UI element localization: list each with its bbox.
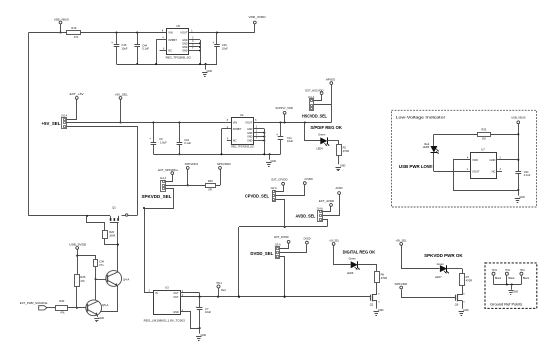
svg-text:+: +: [195, 305, 197, 309]
svg-text:0.1uF: 0.1uF: [524, 173, 531, 177]
svg-text:DIGITAL REG OK: DIGITAL REG OK: [343, 249, 376, 254]
svg-text:GND: GND: [340, 165, 346, 168]
svg-text:R30: R30: [59, 299, 64, 303]
svg-text:Ground Ref Points: Ground Ref Points: [490, 303, 523, 307]
svg-text:470R: 470R: [381, 276, 387, 280]
svg-text:REG_LM1086IS_1.8V_TO263: REG_LM1086IS_1.8V_TO263: [144, 319, 185, 323]
svg-text:GND: GND: [182, 50, 188, 53]
svg-text:+5V_SEL: +5V_SEL: [115, 92, 128, 96]
svg-text:VOUT: VOUT: [245, 121, 253, 125]
svg-text:REG_TPS76933_SO: REG_TPS76933_SO: [231, 144, 254, 148]
svg-text:+5V_SEL: +5V_SEL: [42, 121, 61, 126]
svg-text:USB_VBUS: USB_VBUS: [54, 18, 69, 22]
svg-text:USB PWR LOW!: USB PWR LOW!: [399, 164, 433, 169]
svg-text:C44: C44: [142, 43, 147, 47]
svg-text:GND: GND: [513, 290, 519, 293]
svg-text:J12 A: J12 A: [270, 187, 277, 190]
svg-text:+5V_SEL: +5V_SEL: [329, 239, 339, 243]
svg-text:Red: Red: [221, 289, 226, 292]
svg-text:47k: 47k: [60, 311, 65, 315]
svg-text:EXT_HSCVDD: EXT_HSCVDD: [306, 89, 325, 93]
svg-text:VIN: VIN: [233, 121, 237, 125]
svg-text:LED4: LED4: [316, 146, 323, 150]
svg-text:SUPPLY_VDD: SUPPLY_VDD: [275, 106, 293, 110]
svg-text:Black: Black: [495, 277, 502, 280]
svg-text:HSCVDD_SEL: HSCVDD_SEL: [302, 113, 327, 118]
svg-text:SPKVDD PWR OK: SPKVDD PWR OK: [424, 253, 463, 258]
svg-text:100K: 100K: [109, 234, 115, 238]
svg-text:VDD: VDD: [472, 158, 478, 162]
svg-text:GND: GND: [247, 132, 253, 135]
svg-text:EXT_AVDD: EXT_AVDD: [319, 199, 335, 203]
svg-text:10uF: 10uF: [222, 46, 228, 50]
svg-text:10uF: 10uF: [205, 310, 211, 314]
svg-text:EXT_DVDD: EXT_DVDD: [274, 235, 289, 239]
svg-text:CPVDD: CPVDD: [305, 177, 314, 181]
svg-text:GND: GND: [271, 160, 277, 163]
svg-text:Green: Green: [318, 133, 326, 137]
svg-text:R33: R33: [481, 128, 486, 132]
svg-text:GND: GND: [247, 128, 253, 131]
svg-text:TP14: TP14: [216, 281, 222, 285]
svg-text:GND: GND: [182, 39, 188, 42]
svg-text:R16: R16: [71, 26, 76, 30]
svg-text:SPKVDD: SPKVDD: [395, 282, 409, 286]
svg-text:+: +: [149, 136, 151, 140]
svg-text:GND: GND: [182, 43, 188, 46]
svg-text:NC: NC: [492, 169, 496, 173]
svg-text:SPKVDD2: SPKVDD2: [217, 162, 231, 166]
svg-text:CPVDD_SEL: CPVDD_SEL: [245, 194, 270, 199]
svg-text:47n: 47n: [99, 263, 104, 267]
svg-text:J14 A: J14 A: [317, 207, 324, 210]
svg-text:470R: 470R: [343, 149, 349, 153]
svg-text:U3: U3: [165, 286, 169, 290]
svg-text:Black: Black: [508, 277, 515, 280]
svg-text:IN: IN: [155, 291, 158, 295]
svg-text:AVDD_SEL: AVDD_SEL: [296, 213, 316, 218]
svg-text:GND: GND: [247, 136, 253, 139]
svg-text:R7: R7: [466, 275, 470, 279]
svg-text:DVDD_SEL: DVDD_SEL: [250, 251, 273, 256]
svg-text:1.5uF: 1.5uF: [160, 140, 167, 144]
svg-text:HPVDD: HPVDD: [326, 78, 336, 82]
svg-text:GND: GND: [519, 196, 525, 199]
svg-text:J13 A: J13 A: [160, 177, 167, 180]
svg-text:470: 470: [74, 35, 79, 39]
svg-text:U7: U7: [481, 148, 485, 152]
svg-text:R2: R2: [343, 146, 347, 150]
svg-text:EXT_PWR_SOURCE: EXT_PWR_SOURCE: [20, 301, 48, 305]
svg-text:+: +: [111, 41, 113, 45]
svg-text:Q4-A: Q4-A: [123, 277, 130, 281]
svg-text:LED5: LED5: [423, 145, 430, 149]
svg-text:DVDD: DVDD: [304, 237, 311, 241]
svg-text:470R: 470R: [466, 278, 472, 282]
svg-text:10uF: 10uF: [121, 46, 127, 50]
svg-text:TP13: TP13: [492, 268, 497, 272]
svg-text:10uF: 10uF: [287, 139, 293, 143]
svg-text:S/PDIF REG OK: S/PDIF REG OK: [310, 125, 342, 130]
svg-text:OUT: OUT: [173, 296, 179, 299]
svg-text:J15 A: J15 A: [274, 243, 281, 246]
svg-text:SPKVDD1: SPKVDD1: [185, 162, 199, 166]
svg-text:+: +: [276, 133, 278, 137]
svg-text:Q1: Q1: [112, 206, 116, 210]
svg-text:GND: GND: [99, 317, 105, 320]
svg-text:INHIBIT: INHIBIT: [168, 39, 177, 42]
svg-text:GND: GND: [173, 311, 179, 314]
svg-text:Q2: Q2: [370, 303, 374, 307]
svg-text:+: +: [212, 41, 214, 45]
svg-text:LED7: LED7: [435, 275, 442, 279]
svg-text:47k: 47k: [80, 279, 85, 283]
svg-text:0R: 0R: [208, 188, 211, 192]
svg-text:VIN: VIN: [168, 31, 172, 35]
svg-text:VOUT: VOUT: [180, 31, 188, 35]
svg-text:U2: U2: [240, 113, 244, 117]
svg-text:J10 A: J10 A: [61, 114, 68, 117]
svg-text:OUT: OUT: [173, 292, 179, 295]
svg-text:R20: R20: [109, 230, 114, 234]
svg-text:Green: Green: [437, 262, 445, 266]
svg-text:REG_TPS2805_SO: REG_TPS2805_SO: [166, 56, 192, 60]
svg-text:INHIBIT: INHIBIT: [233, 128, 242, 131]
svg-text:0.1uF: 0.1uF: [142, 47, 149, 51]
svg-text:GND: GND: [247, 140, 253, 143]
svg-text:GND: GND: [463, 309, 469, 312]
svg-text:R40: R40: [208, 179, 213, 183]
svg-text:Black: Black: [523, 277, 530, 280]
svg-text:GND: GND: [207, 70, 213, 73]
svg-text:EXT_+5V: EXT_+5V: [70, 92, 85, 96]
svg-text:R6: R6: [381, 273, 385, 277]
svg-text:USB_5VDD: USB_5VDD: [69, 242, 87, 246]
svg-text:C34: C34: [99, 259, 104, 263]
svg-text:EXT_SPKVDD+: EXT_SPKVDD+: [158, 168, 178, 172]
svg-text:Low-Voltage Indicator: Low-Voltage Indicator: [396, 115, 447, 119]
svg-text:Q5-A: Q5-A: [102, 303, 109, 307]
svg-text:AVDD: AVDD: [336, 186, 344, 190]
svg-text:USB_VBUS: USB_VBUS: [511, 116, 525, 120]
svg-text:GND: GND: [201, 334, 207, 337]
svg-text:U5: U5: [176, 24, 180, 28]
svg-text:C45: C45: [121, 43, 126, 47]
svg-text:+5V_SEL: +5V_SEL: [395, 239, 406, 243]
svg-text:TP12: TP12: [520, 268, 525, 272]
svg-text:NC: NC: [168, 49, 172, 53]
svg-text:0.1uF: 0.1uF: [184, 141, 191, 145]
svg-text:EXT_CPVDD: EXT_CPVDD: [272, 178, 289, 182]
svg-text:Green: Green: [348, 257, 356, 261]
svg-text:NC: NC: [233, 139, 237, 143]
svg-text:VOUT: VOUT: [472, 169, 480, 173]
svg-text:GND: GND: [490, 158, 496, 162]
svg-text:SPKVDD_SEL: SPKVDD_SEL: [142, 194, 173, 199]
svg-text:C40: C40: [222, 43, 227, 47]
svg-text:LED6: LED6: [347, 271, 354, 275]
svg-text:R25: R25: [80, 275, 85, 279]
svg-text:GND: GND: [378, 309, 384, 312]
svg-text:VDD_3VDD: VDD_3VDD: [249, 15, 267, 19]
svg-text:Q6: Q6: [455, 303, 459, 307]
svg-text:TP11: TP11: [505, 268, 511, 272]
